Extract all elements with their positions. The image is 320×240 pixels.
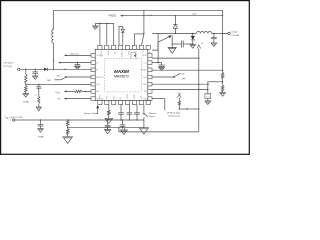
wire FB1 row right <box>82 90 91 92</box>
svg-text:TO 5.5V): TO 5.5V) <box>3 66 12 68</box>
wire L2 to output terminal <box>212 32 228 34</box>
svg-text:System Clock: System Clock <box>84 112 97 115</box>
wire R9 to sense line <box>179 108 187 110</box>
node return-tap junction <box>118 127 119 128</box>
wire long vertical sense <box>198 49 200 132</box>
capacitor C1 input <box>32 71 38 73</box>
wire tap to OSC pin <box>26 83 91 85</box>
wire inductor L1 bottom lead <box>53 43 55 69</box>
wire REG-BST loop top bar <box>119 25 123 27</box>
svg-text:BST1: BST1 <box>106 51 108 55</box>
svg-text:SEL: SEL <box>143 84 146 86</box>
node FB1 junction <box>85 91 86 92</box>
node VL cap junction <box>77 62 78 63</box>
wire REG-BST loop right leg lower <box>122 32 124 45</box>
node tap bottom <box>67 127 68 128</box>
wire C13 bottom stem <box>107 126 109 129</box>
wire CLKOUT <box>66 54 91 56</box>
node rail-pin2 junction <box>106 23 107 24</box>
resistor R5 FB lower <box>221 85 224 92</box>
wire REG-BST loop left leg <box>118 26 120 45</box>
inductor L2 output <box>197 32 212 34</box>
resistor R10 below C3 <box>38 96 40 103</box>
wire divider tap <box>25 83 27 86</box>
wire input cap stem <box>34 69 36 72</box>
resistor R9 VREF pullup <box>178 101 180 106</box>
arrow PVDD2 (points left) <box>120 15 123 17</box>
IC right pin boxes <box>148 54 152 58</box>
wire C2 to ground <box>76 65 78 67</box>
node bus cap junction <box>40 119 41 120</box>
wire RT to ground <box>108 115 110 118</box>
resistor R8 divider lower <box>66 129 69 135</box>
wire VIN bus <box>15 119 144 121</box>
svg-text:LX2: LX2 <box>144 62 147 64</box>
svg-text:PG: PG <box>57 99 60 101</box>
wire LX feed from pin <box>157 33 159 62</box>
resistor R3 feedback <box>75 90 83 93</box>
wire D4 to junction <box>192 40 194 44</box>
wire VREF stem <box>178 98 180 101</box>
svg-text:MAXIM: MAXIM <box>114 69 129 74</box>
ground below R10 <box>36 107 41 111</box>
svg-text:VL: VL <box>96 62 98 64</box>
node MR-arrow junction <box>198 89 199 90</box>
wire pin3 to gnd rail <box>113 23 115 45</box>
svg-text:MAX5072: MAX5072 <box>114 75 129 79</box>
wire C12 top stem <box>122 120 124 125</box>
wire pin2 to gnd rail <box>106 23 108 45</box>
svg-text:Clock Out: Clock Out <box>69 52 79 55</box>
wire FB tap to MR net <box>208 81 223 83</box>
switch S1 pivot <box>65 76 67 78</box>
capacitor C11 bulk <box>38 124 44 126</box>
IC U1 MAX5072 body <box>95 49 148 100</box>
node rail-pin1 junction <box>99 23 100 24</box>
IC exposed pad (dashed) <box>105 58 142 92</box>
node tap cap junction left <box>38 84 39 85</box>
capacitor C9 bypass <box>127 112 133 114</box>
node Q1 drain junction <box>172 43 173 44</box>
svg-text:10µF: 10µF <box>192 14 197 16</box>
wire C6 to diode leg <box>183 43 193 45</box>
node bus divider junction <box>67 119 68 120</box>
wire C13 top stem <box>107 120 109 125</box>
ground AGND top-left <box>93 26 98 29</box>
svg-text:PGND: PGND <box>127 94 129 100</box>
wire FB divider drop <box>222 10 224 72</box>
node inductor/input junction <box>53 69 54 70</box>
wire pin7 up-feed <box>142 34 144 45</box>
wire LX node rail <box>152 32 196 34</box>
resistor R4 FB upper <box>221 72 224 79</box>
wire IN2 rail <box>152 69 223 71</box>
wire EN row <box>67 76 91 78</box>
wire BST cap stem <box>161 63 163 65</box>
node D3-LX junction <box>175 33 176 34</box>
diode D3 (up) <box>173 25 177 29</box>
ground below R2 <box>23 94 29 98</box>
wire PVDD2 arrow stub <box>123 15 144 17</box>
node D4-C6 junction <box>192 43 193 44</box>
arrow MR link (right) <box>187 108 190 110</box>
wire pin1 to gnd rail <box>99 23 101 45</box>
terminal input 1 <box>18 68 20 70</box>
IC left pin boxes <box>91 54 95 58</box>
svg-text:EN/UVLO: EN/UVLO <box>96 77 104 79</box>
svg-text:SYNC: SYNC <box>100 94 102 99</box>
wire divider tap bottom <box>67 126 69 128</box>
ground below C5 <box>159 67 165 70</box>
capacitor C12 <box>120 124 126 126</box>
ground big below manual reset <box>139 128 148 134</box>
arrow PG <box>64 98 67 100</box>
ground below D4 <box>192 43 194 46</box>
IC top pin boxes <box>98 45 102 49</box>
capacitor C10 bypass <box>134 112 140 114</box>
node FB tap on output <box>222 33 223 34</box>
wire EN2 row <box>152 76 173 78</box>
svg-text:OSC: OSC <box>96 84 101 86</box>
node diode-inductor junction <box>64 69 65 70</box>
svg-text:3.3V/2A: 3.3V/2A <box>231 34 239 37</box>
resistor R1 upper divider <box>25 74 28 83</box>
svg-text:Manual: Manual <box>149 113 156 115</box>
capacitor C7 output <box>211 36 217 38</box>
arrow Q1 (up-right) <box>168 35 171 38</box>
ground below C12 <box>120 130 127 135</box>
diode D4 catch (down) <box>191 36 195 40</box>
wire branch to pin6 <box>134 33 144 35</box>
wire system clock stub <box>96 113 98 115</box>
wire pin BST2 row <box>152 62 162 64</box>
svg-text:PVDD1: PVDD1 <box>100 51 102 57</box>
node PVDD2 drop junction <box>143 33 144 34</box>
wire R8 to ground <box>67 135 69 137</box>
capacitor C5 BST <box>159 64 165 66</box>
wire tap drop to box <box>207 82 209 94</box>
svg-text:LX2: LX2 <box>148 51 150 54</box>
svg-text:LX1: LX1 <box>113 51 115 54</box>
node C13 tap junction <box>107 127 108 128</box>
node SEL-arrow junction <box>198 84 199 85</box>
node input junction B <box>35 69 36 70</box>
wire C12 gnd stem <box>124 128 126 130</box>
resistor R6 RT <box>108 110 111 115</box>
wire input line to diode <box>20 68 44 70</box>
wire top rail from inductor L1 <box>54 9 223 11</box>
wire REG-BST loop right leg upper <box>122 26 124 29</box>
wire bus cap stem <box>40 120 42 125</box>
wire divider stem <box>25 69 27 74</box>
border frame <box>1 1 250 155</box>
wire C7 ground stem <box>213 39 215 43</box>
node C12 tap junction <box>122 127 123 128</box>
IC bottom pin boxes <box>98 101 102 105</box>
arrow system clock (filled, up) <box>96 105 99 108</box>
wire PGOOD row <box>66 98 91 100</box>
capacitor C6 (vertical plates) <box>180 41 182 48</box>
wire R5 to ground <box>222 91 224 94</box>
wire SEL rail <box>152 83 209 85</box>
svg-text:EN2: EN2 <box>143 77 147 79</box>
wire RT stem <box>108 105 110 111</box>
wire MR rail <box>152 88 208 90</box>
wire C11 ground stem <box>40 126 42 129</box>
svg-text:FB2: FB2 <box>144 98 147 100</box>
wire ground return bottom <box>119 131 199 133</box>
svg-text:µP Reset Input: µP Reset Input <box>167 111 181 114</box>
wire diode to IC IN pin <box>47 68 91 70</box>
ground below RT <box>105 118 113 123</box>
wire AGND rail above IC <box>95 22 113 24</box>
switch S2 lever <box>175 73 181 76</box>
wire output cap stem <box>213 33 215 37</box>
capacitor C2 on VL <box>75 64 81 66</box>
pushbutton box MR <box>205 93 211 98</box>
wire Q1 node to ground <box>171 44 173 48</box>
transistor Q1 lever <box>158 36 171 42</box>
terminal output <box>228 32 230 34</box>
wire inductor L1 top lead <box>53 10 55 29</box>
ground big below switch <box>168 48 176 54</box>
node divider tap <box>25 84 26 85</box>
capacitor C13 <box>105 124 111 126</box>
node output cap junction <box>213 33 214 34</box>
wire system clock riser <box>97 108 99 113</box>
arrow Clock Out <box>64 55 67 57</box>
ground below C1 <box>32 76 38 80</box>
node MR-box junction <box>207 89 208 90</box>
diode D3 rectifier stem top <box>174 16 176 25</box>
svg-text:PGND1: PGND1 <box>120 51 122 57</box>
ground below C13 <box>104 130 110 134</box>
wire link to sense vertical <box>189 108 199 110</box>
wire tap rail bottom <box>68 127 144 129</box>
svg-text:Output: Output <box>231 31 238 34</box>
resistor R2 lower divider <box>25 86 28 93</box>
wire FB mid <box>222 79 224 85</box>
wire R9 lower stem <box>178 106 180 109</box>
wire C5 ground stem <box>161 66 163 67</box>
ground below C11 <box>38 129 44 133</box>
switch S2 pivot <box>173 76 175 78</box>
wire tap cap stem <box>38 85 40 87</box>
wire jog from top rail down to PVDD2 rail <box>143 10 145 15</box>
wire manual reset riser upper <box>143 105 145 114</box>
wire box to ground <box>207 99 209 101</box>
svg-text:SGND: SGND <box>134 94 136 100</box>
diode D2 bootstrap (down) <box>121 29 124 32</box>
svg-text:FB1: FB1 <box>96 91 99 93</box>
node rail-arrow junction <box>198 57 199 58</box>
node D3 top <box>175 15 176 16</box>
wire C3 lower stem <box>38 88 40 96</box>
switch S1 contact stub <box>54 79 61 81</box>
switch S1 lever <box>61 78 65 80</box>
arrow V+ sense (open, up) <box>197 45 201 49</box>
switch S3 manual reset lever <box>144 114 148 117</box>
wire rail PGND2 row <box>152 57 199 59</box>
svg-text:Delay Circuit: Delay Circuit <box>169 115 181 118</box>
wire Q1 node stem <box>171 35 173 44</box>
ground below R5 <box>220 93 226 97</box>
node BST cap junction <box>157 62 158 63</box>
arrow VOUT1 <box>64 91 67 93</box>
ground below box <box>205 101 211 105</box>
resistor R7 divider upper <box>66 120 69 126</box>
node bus C13 junction <box>107 119 108 120</box>
node R9 junction <box>179 108 180 109</box>
ground below C2 <box>75 66 80 69</box>
svg-text:PGND: PGND <box>38 137 44 139</box>
svg-text:PVDD2: PVDD2 <box>109 16 117 18</box>
switch S3 contact tick <box>143 113 146 115</box>
node bus C12 junction <box>122 119 123 120</box>
wire manual reset riser lower <box>143 117 145 127</box>
wire C1 to ground <box>34 73 36 76</box>
capacitor C8 bypass <box>118 112 124 114</box>
wire cap grounds to bus <box>120 114 122 120</box>
svg-text:PGND2: PGND2 <box>141 70 147 72</box>
svg-text:Reset: Reset <box>149 115 155 118</box>
arrow VL <box>58 62 61 64</box>
capacitor C3 on EN tap <box>36 86 41 88</box>
wire C13 gnd stem <box>107 128 109 130</box>
IC internal thermal glyph <box>131 53 135 59</box>
diode D1 input (right) <box>44 68 47 71</box>
wire VL cap stem <box>76 63 78 65</box>
wire C12 bottom stem <box>122 126 124 127</box>
node link-sense junction <box>198 108 199 109</box>
wire PVDD2 rail to output corner <box>144 15 223 17</box>
wire AGND stem <box>94 23 96 26</box>
svg-text:BST2: BST2 <box>142 55 147 57</box>
ground big below R8 <box>63 137 73 144</box>
node FB rail junction <box>222 70 223 71</box>
svg-text:7.5V (4.5V: 7.5V (4.5V <box>3 63 14 65</box>
wire to ground <box>25 93 27 94</box>
wire return riser <box>118 128 120 132</box>
inductor L1 <box>52 30 54 44</box>
wire node to cap C6 <box>172 43 181 45</box>
wire R10 gnd stem <box>38 103 40 107</box>
node PVDD2 rail right end <box>222 15 223 16</box>
node FB mid tap <box>222 81 223 82</box>
node D4 top junction <box>192 33 193 34</box>
terminal input 2 <box>12 119 14 121</box>
node input junction A <box>25 69 26 70</box>
wire PVDD2 drop <box>143 16 145 34</box>
wire MR pin7 row <box>152 98 165 100</box>
wire diode D4 stem <box>192 33 194 36</box>
ground below C7 <box>211 43 217 47</box>
wire switch Q1 entry <box>152 42 158 50</box>
wire FB1 row left <box>66 90 74 92</box>
wire D3 to LX node <box>174 28 176 33</box>
wire cap stems bottom <box>120 105 122 113</box>
node PVDD2 rail junction <box>143 15 144 16</box>
wire MR drop to label <box>164 99 166 111</box>
svg-text:10k: 10k <box>34 94 37 96</box>
wire pin6 up-feed <box>133 34 135 45</box>
arrow VREF (open, up) <box>178 94 182 97</box>
svg-text:SGND: SGND <box>23 102 29 104</box>
wire VL row <box>60 62 91 64</box>
